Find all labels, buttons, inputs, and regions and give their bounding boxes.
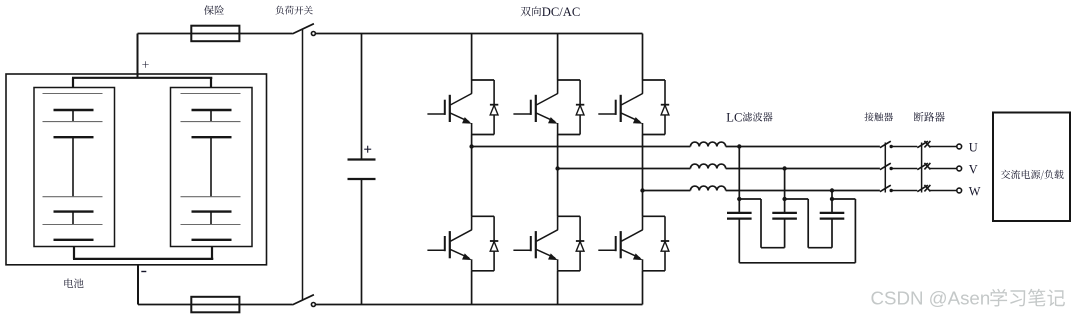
terminal W xyxy=(957,188,962,193)
battery positive lead wire xyxy=(137,34,139,78)
wire breaker to terminal U xyxy=(930,146,957,148)
diode D4 xyxy=(579,216,581,270)
battery stack module left xyxy=(34,88,115,247)
IGBT Q5 xyxy=(642,80,644,94)
contactor KM1 pole U contact xyxy=(890,145,893,148)
wire cap drop phase W xyxy=(831,191,833,200)
wire cell1-cell2 (left stack) xyxy=(72,110,74,122)
battery cell 3 plates (left stack) xyxy=(43,196,103,198)
battery cell 3 plates (right stack) xyxy=(181,196,241,198)
label 双向 (bidirectional) xyxy=(521,6,541,16)
contactor KM1 pole U blade xyxy=(880,141,891,148)
wire delta link W-b xyxy=(808,247,832,249)
wire emitter rail Q3 xyxy=(558,134,581,136)
wire leg 2 bottom stub xyxy=(557,271,559,305)
svg-text:LC: LC xyxy=(726,110,742,124)
IGBT Q6 xyxy=(642,216,644,230)
wire contactor to breaker W xyxy=(891,190,917,192)
AC source/load box xyxy=(993,113,1070,222)
wire stub left stack bottom xyxy=(73,247,75,259)
battery pack outer box xyxy=(6,74,267,265)
wire cell3-cell4 (left stack) xyxy=(72,212,74,225)
wire collector rail Q3 xyxy=(558,79,581,81)
wire stub right stack bottom xyxy=(211,247,213,259)
wire phase U filter to contactor xyxy=(726,146,880,148)
wire phase W to filter xyxy=(643,190,691,192)
IGBT Q3 xyxy=(557,80,559,94)
wire cell2-cell3 (right stack) xyxy=(210,137,212,197)
wire cap drop phase U xyxy=(738,147,740,200)
contactor KM1 linkage xyxy=(884,143,886,193)
label 负荷开关 (load switch) xyxy=(276,6,313,15)
label 断路器 (breaker) xyxy=(914,112,945,122)
node phase W capacitor tap xyxy=(830,188,834,192)
wire top bus switch to leg3 xyxy=(315,33,642,35)
load switch S1 pole A blade xyxy=(292,24,314,34)
wire leg 1 bottom stub xyxy=(471,271,473,305)
wire cell1-cell2 (right stack) xyxy=(210,110,212,122)
diode D1 xyxy=(493,80,495,135)
load switch S1 pole A contact xyxy=(311,32,315,36)
node phase V capacitor tap xyxy=(782,166,786,170)
battery cell 4 plates (right stack) xyxy=(181,224,241,226)
contactor KM1 pole W blade xyxy=(880,185,891,192)
diode D5 xyxy=(664,80,666,135)
IGBT Q4 xyxy=(557,216,559,230)
wire cap drop phase V xyxy=(784,169,786,200)
load switch S1 pole B contact xyxy=(311,303,315,307)
wire emitter rail Q5 xyxy=(643,134,666,136)
wire leg 1 top stub xyxy=(471,34,473,81)
contactor KM1 pole W contact xyxy=(890,189,893,192)
IGBT Q1 xyxy=(471,80,473,94)
node cap top V xyxy=(782,197,786,201)
wire riser delta c xyxy=(854,199,856,263)
breaker QF1 linkage xyxy=(921,143,923,193)
battery negative lead wire xyxy=(137,265,139,305)
filter capacitor C2 plates xyxy=(727,212,752,214)
label 交流电源/负载 (AC source/load) xyxy=(1001,170,1064,180)
wire collector rail Q5 xyxy=(643,79,666,81)
wire collector rail Q2 xyxy=(472,215,495,217)
battery cell 2 plates (right stack) xyxy=(181,121,241,123)
wire phase V to filter xyxy=(558,168,691,170)
breaker QF1 pole V X contact xyxy=(924,163,930,170)
wire contactor to breaker V xyxy=(891,168,917,170)
node cap top U xyxy=(737,197,741,201)
node phase W leg tap xyxy=(640,188,644,192)
wire contactor to breaker U xyxy=(891,146,917,148)
wire top bus battery to switch xyxy=(138,33,293,35)
wire leg 2 middle xyxy=(557,135,559,217)
battery top bus bar xyxy=(72,77,212,79)
IGBT Q2 xyxy=(471,216,473,230)
wire breaker to terminal V xyxy=(930,168,957,170)
wire cap top stub V xyxy=(785,198,809,200)
load switch S1 pole B blade xyxy=(292,295,314,305)
wire cap W lower lead xyxy=(831,219,833,248)
inductor L2 xyxy=(690,164,725,168)
wire leg 3 bottom stub xyxy=(642,271,644,305)
wire phase U to filter xyxy=(472,146,691,148)
inductor L3 xyxy=(690,186,725,190)
breaker QF1 pole W blade xyxy=(917,185,928,192)
dc-link capacitor C1 plates xyxy=(348,158,376,160)
label + (battery positive) xyxy=(142,61,148,68)
battery cell 1 plates (right stack) xyxy=(181,93,241,95)
wire bottom bus battery to fuse xyxy=(138,304,292,306)
wire cap V lower lead xyxy=(784,219,786,248)
wire cell2-cell3 (left stack) xyxy=(72,137,74,197)
inductor L1 xyxy=(690,142,725,146)
wire riser delta a xyxy=(760,199,762,248)
wire leg 2 top stub xyxy=(557,34,559,81)
wire cap W upper lead xyxy=(831,199,833,213)
wire phase W filter to contactor xyxy=(726,190,880,192)
wire phase V filter to contactor xyxy=(726,168,880,170)
terminal U xyxy=(957,144,962,149)
wire cap top stub W xyxy=(832,198,855,200)
breaker QF1 pole U blade xyxy=(917,141,928,148)
battery cell 2 plates (left stack) xyxy=(43,121,103,123)
fuse F2 xyxy=(191,297,239,313)
filter capacitor C3 plates xyxy=(772,212,797,214)
label + (dc-link polarity) xyxy=(364,148,371,150)
contactor KM1 pole V blade xyxy=(880,163,891,170)
node phase U leg tap xyxy=(469,144,473,148)
breaker QF1 pole W X contact xyxy=(924,185,930,192)
fuse F1 xyxy=(191,26,239,42)
breaker QF1 pole U X contact xyxy=(924,141,930,148)
diode D3 xyxy=(579,80,581,135)
label - (battery negative) xyxy=(141,271,146,273)
node phase V leg tap xyxy=(555,166,559,170)
wire leg 3 top stub xyxy=(642,34,644,81)
wire leg 3 middle xyxy=(642,135,644,217)
label 保险 (fuse) xyxy=(204,5,224,15)
wire emitter rail Q2 xyxy=(472,270,495,272)
wire leg 1 middle xyxy=(471,135,473,217)
svg-text:DC/AC: DC/AC xyxy=(542,5,581,19)
label 接触器 (contactor) xyxy=(865,112,894,121)
wire cap U upper lead xyxy=(738,199,740,213)
filter capacitor C4 plates xyxy=(820,212,845,214)
wire delta link V-a xyxy=(761,247,785,249)
diode D6 xyxy=(664,216,666,270)
svg-text:V: V xyxy=(969,162,978,176)
wire emitter rail Q6 xyxy=(643,270,666,272)
node cap top W xyxy=(830,197,834,201)
wire delta bottom bus xyxy=(739,262,855,264)
battery cell 1 plates (left stack) xyxy=(43,93,103,95)
battery cell 4 plates (left stack) xyxy=(43,224,103,226)
breaker QF1 pole V blade xyxy=(917,163,928,170)
wire dc-link cap bottom lead xyxy=(361,179,363,305)
node phase U capacitor tap xyxy=(737,144,741,148)
battery stack module right xyxy=(171,88,253,247)
svg-text:W: W xyxy=(969,184,981,198)
label 滤波器 (filter) xyxy=(743,112,773,121)
wire collector rail Q6 xyxy=(643,215,666,217)
wire dc-link cap top lead xyxy=(361,34,363,160)
wire collector rail Q1 xyxy=(472,79,495,81)
wire cap U lower lead xyxy=(738,219,740,263)
label 电池 (battery) xyxy=(64,279,83,289)
wire riser delta b xyxy=(807,199,809,248)
wire cell3-cell4 (right stack) xyxy=(210,212,212,225)
wire emitter rail Q1 xyxy=(472,134,495,136)
wire emitter rail Q4 xyxy=(558,270,581,272)
watermark 学习笔记 xyxy=(990,289,1065,307)
wire stub right stack top xyxy=(210,78,212,88)
svg-text:CSDN @Asen: CSDN @Asen xyxy=(871,288,991,309)
terminal V xyxy=(957,166,962,171)
wire collector rail Q4 xyxy=(558,215,581,217)
diode D2 xyxy=(493,216,495,270)
load switch S1 linkage xyxy=(302,29,304,300)
contactor KM1 pole V contact xyxy=(890,167,893,170)
wire breaker to terminal W xyxy=(930,190,957,192)
battery bottom bus bar xyxy=(73,258,213,260)
wire cap V upper lead xyxy=(784,199,786,213)
wire bottom bus switch to leg3 xyxy=(315,304,642,306)
wire cap top stub U xyxy=(739,198,761,200)
svg-text:U: U xyxy=(969,140,978,154)
wire stub left stack top xyxy=(72,78,74,88)
